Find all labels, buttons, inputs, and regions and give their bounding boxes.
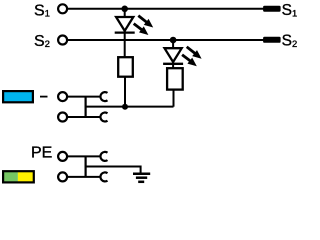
contact spring lower (PE terminal) <box>100 172 107 181</box>
dash after blue box <box>40 96 48 98</box>
LED D1 emission arrow 1 <box>138 16 153 28</box>
svg-text:S2: S2 <box>34 33 50 50</box>
wire PE bus to ground <box>86 167 141 174</box>
wire circle to lower contact <box>68 116 102 118</box>
LED D1 cathode bar <box>115 31 135 33</box>
clamp circle lower (middle terminal) <box>58 113 67 122</box>
wire S1 <box>68 8 264 10</box>
commoning bar (middle terminal) <box>84 97 86 117</box>
wire PE circle to upper contact <box>68 155 102 157</box>
wire PE circle to lower contact <box>68 176 102 178</box>
svg-text:PE: PE <box>31 144 52 161</box>
LED D1 stem wire <box>124 9 126 58</box>
male tab S2 right <box>263 37 281 43</box>
male tab S1 right <box>263 6 281 12</box>
clamp circle lower (PE terminal) <box>58 172 67 181</box>
clamp circle upper (middle terminal) <box>58 92 67 101</box>
LED D1 triangle <box>116 17 133 31</box>
terminal circle S2 left <box>58 36 67 45</box>
clamp circle upper (PE terminal) <box>58 152 67 161</box>
svg-text:S1: S1 <box>34 2 50 19</box>
LED D2 triangle <box>165 48 182 62</box>
LED D2 emission arrow 1 <box>187 47 202 59</box>
svg-text:S1: S1 <box>282 2 298 19</box>
ground symbol bar 1 <box>133 172 150 175</box>
wire R1 to node A <box>124 77 126 107</box>
bus wire to LEDs <box>86 106 174 108</box>
wire S2 <box>68 39 264 41</box>
LED D2 stem wire <box>172 40 174 69</box>
commoning bar (PE terminal) <box>84 156 86 177</box>
wire circle to upper contact <box>68 96 102 98</box>
LED D2 cathode bar <box>163 63 183 65</box>
contact spring lower (middle terminal) <box>100 113 107 122</box>
resistor R2 <box>167 68 183 89</box>
node A junction dot <box>122 104 128 110</box>
contact spring upper (PE terminal) <box>100 152 107 161</box>
blue marking box <box>3 91 33 102</box>
junction dot on S1 wire <box>121 6 128 13</box>
contact spring upper (middle terminal) <box>100 92 107 101</box>
green-yellow marking box <box>3 171 34 182</box>
terminal circle S1 left <box>58 4 67 13</box>
junction dot on S2 wire <box>170 37 177 44</box>
ground symbol bar 3 <box>138 181 144 184</box>
wire R2 down to bus <box>173 89 175 106</box>
LED D1 emission arrow 2 <box>134 24 149 35</box>
ground symbol bar 2 <box>136 176 147 179</box>
svg-text:S2: S2 <box>282 32 298 49</box>
resistor R1 <box>118 57 133 76</box>
LED D2 emission arrow 2 <box>182 55 197 66</box>
